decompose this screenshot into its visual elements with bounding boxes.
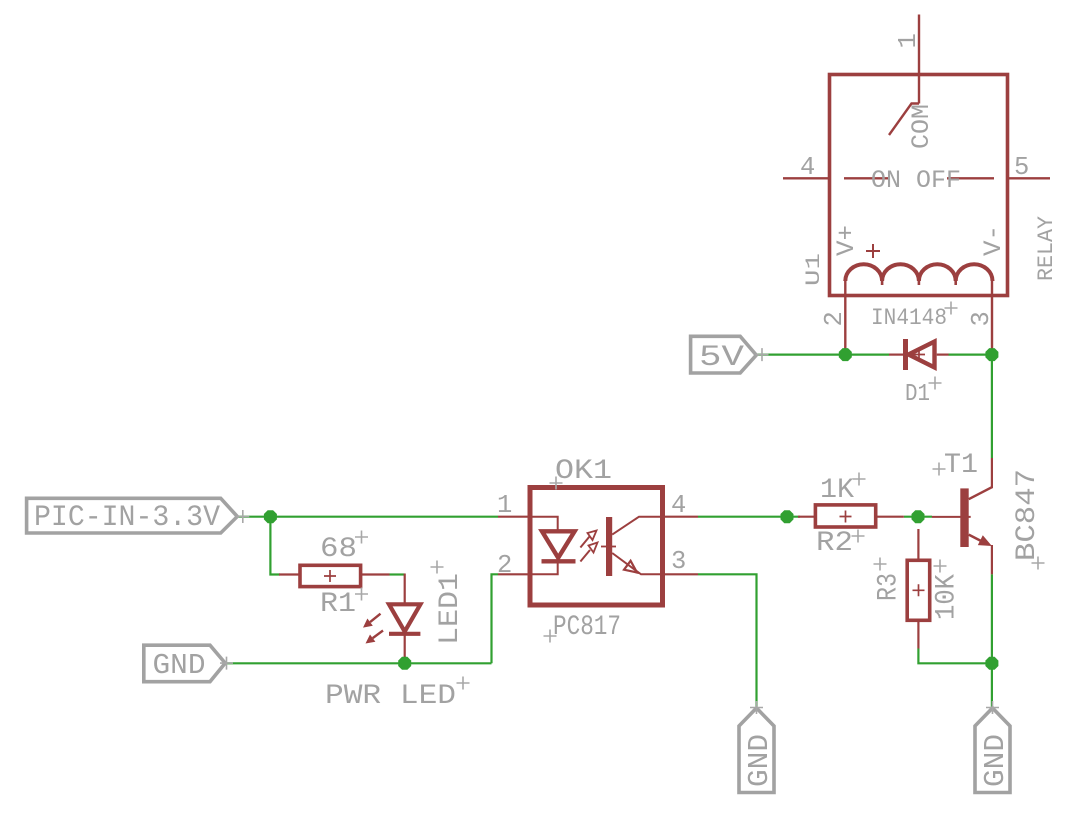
wire relay pin2 stub tail [844,348,846,355]
resistor R1 left stub [279,573,300,575]
cross at PC817 label [544,630,557,643]
resistor R1 body [300,565,361,586]
svg-text:1K: 1K [820,475,854,506]
resistor R3 origin cross [913,584,925,596]
LED1 top lead [404,574,406,605]
LED1 light arrow 2 [373,631,383,639]
cross at OK1 label [550,477,563,490]
transistor T1 [932,458,992,574]
svg-text:5V: 5V [699,341,744,375]
svg-text:OK1: OK1 [555,456,612,487]
wire T1 emitter to GND flag [991,574,993,708]
resistor R1 right stub [361,573,390,575]
T1 emitter stub [991,545,993,574]
wire junction down to R1 [270,517,280,575]
cross at LED1 label [431,561,444,574]
OK1 phototransistor emitter [612,553,662,574]
wire net PIC-IN-3.3V to OK1 pin1 [238,516,498,518]
LED1 cathode bar [389,632,420,636]
svg-text:GND: GND [743,734,776,787]
resistor R2 body [815,505,875,527]
LED1 [363,574,420,658]
OK1 light arrow 1 [580,537,589,548]
svg-text:ON OFF: ON OFF [871,166,961,195]
node 5V relay pin2 junction [839,348,852,361]
net flag GND right [975,708,1010,793]
LED1 bottom lead [404,634,406,658]
T1 collector diagonal [969,487,992,499]
OK1 phototransistor collector [612,517,662,535]
resistor R2 [798,505,904,527]
T1 emitter diagonal [969,535,984,543]
svg-text:3: 3 [671,547,686,576]
cross at GND left flag tip [220,657,233,670]
resistor R2 origin cross [840,511,852,523]
svg-text:5: 5 [1014,153,1029,182]
OK1 box [530,488,663,606]
cross at R3 label [874,558,887,571]
svg-text:2: 2 [820,311,849,326]
relay U1 box [830,75,1008,296]
diode D1 [889,339,949,370]
svg-text:2: 2 [497,551,512,580]
cross after R2 [852,530,865,543]
svg-text:PIC-IN-3.3V: PIC-IN-3.3V [34,501,220,535]
net flag GND left [144,645,225,682]
svg-text:COM: COM [907,104,936,149]
relay pin 1 lead [918,15,920,104]
svg-text:PWR LED: PWR LED [325,681,456,712]
svg-text:R1: R1 [320,589,356,620]
net flag PIC-IN-3.3V [27,498,238,533]
svg-text:GND: GND [153,649,206,682]
cross after 68 [355,531,368,544]
svg-text:4: 4 [800,153,815,182]
OK1 internal led triangle [542,531,575,558]
diode D1 cathode bar [903,339,908,370]
T1 emitter arrowhead [978,535,992,546]
relay pin 5 lead [1008,177,1051,179]
svg-text:PC817: PC817 [553,612,621,643]
cross after IN4148 [945,302,958,315]
diode D1 triangle [909,342,935,368]
optocoupler OK1 [498,488,698,606]
OK1 phototransistor base tick [601,546,616,548]
diode D1 right stub [937,354,949,356]
svg-text:IN4148: IN4148 [871,305,947,331]
cross at T1 label [933,463,946,476]
resistor R1 [279,565,390,586]
OK1 pin4 stub [663,516,699,518]
cross after 1K [853,473,866,486]
OK1 light arrow 2 [580,550,590,562]
wire LED to GND rail [404,657,406,664]
wire GND rail up to OK1 pin2 [492,574,499,663]
cross at 5V flag tip [756,348,769,361]
cross at GND right flag tip [986,701,999,714]
svg-text:BC847: BC847 [1012,469,1043,561]
svg-text:3: 3 [967,311,996,326]
svg-text:GND: GND [979,734,1012,787]
svg-text:4: 4 [671,491,686,520]
OK1 pin1 stub [498,516,530,518]
relay coil plus mark [866,244,880,258]
resistor R3 [907,529,930,649]
diode D1 origin cross [913,349,925,361]
cross after PWR LED [457,677,470,690]
wire R1 to LED corner [390,573,405,575]
net flag 5V [691,336,757,373]
resistor R2 right stub [876,516,904,518]
svg-text:LED1: LED1 [435,573,466,645]
relay coil [845,264,992,281]
svg-text:V-: V- [979,225,1008,256]
cross at 10K label [934,560,947,573]
node T1 base junction [912,510,925,523]
svg-text:1: 1 [497,491,512,520]
net flag GND middle [739,708,774,793]
node diode relay pin3 junction [985,348,998,361]
OK1 pin2 stub [498,573,530,575]
cross at PIC flag tip [236,510,249,523]
LED1 triangle [389,604,420,631]
relay coil lead pin 3 [991,281,993,349]
resistor R3 top stub [917,529,919,560]
cross at GND middle flag tip [750,701,763,714]
node emitter GND junction [985,657,998,670]
node OK1 pin4 junction [781,510,794,523]
relay coil lead pin 2 [844,281,846,349]
svg-text:68: 68 [320,534,357,565]
cross after D1 [929,377,942,390]
wire R3 bottom to GND node [918,649,992,664]
wire 5V to diode [757,354,889,356]
T1 collector stub [991,458,993,488]
cross at BC847 label [1032,557,1045,570]
svg-text:10K: 10K [932,574,963,620]
wire OK1 pin3 to GND flag [698,574,757,708]
cross after R1 [355,588,368,601]
OK1 emitter arrowhead [624,561,637,573]
relay switch arm [889,104,919,136]
node PIC junction [264,510,277,523]
relay pin 4 lead [783,177,830,179]
svg-text:T1: T1 [944,450,978,481]
diode D1 left stub [889,354,903,356]
svg-text:1: 1 [894,33,923,48]
relay contact line right [947,177,994,179]
wire R2 to T1 base [904,516,932,518]
svg-text:V+: V+ [832,225,861,256]
svg-text:R3: R3 [874,573,905,601]
resistor R1 origin cross [324,570,336,582]
resistor R3 bottom stub [917,620,919,648]
OK1 internal led cathode bar [542,559,576,563]
OK1 pin3 stub [663,573,699,575]
resistor R2 left stub [798,516,815,518]
resistor R3 body [907,560,930,620]
T1 base line [932,516,971,518]
OK1 internal led wiring [530,517,558,575]
LED1 light arrow 1 [370,614,380,622]
wire diode to pin3 node [949,354,992,356]
svg-text:R2: R2 [816,528,853,559]
T1 base bar [960,488,968,547]
wire OK1 pin4 to R2 [698,516,800,518]
relay coil cusp notches [882,281,956,286]
wire node to T1 collector [991,355,993,458]
wire GND rail [225,662,492,664]
svg-text:RELAY: RELAY [1034,216,1059,281]
svg-text:D1: D1 [905,381,930,408]
OK1 phototransistor bar [606,517,612,576]
relay contact line left [844,177,890,179]
node LED GND junction [398,657,411,670]
svg-text:U1: U1 [803,253,826,286]
